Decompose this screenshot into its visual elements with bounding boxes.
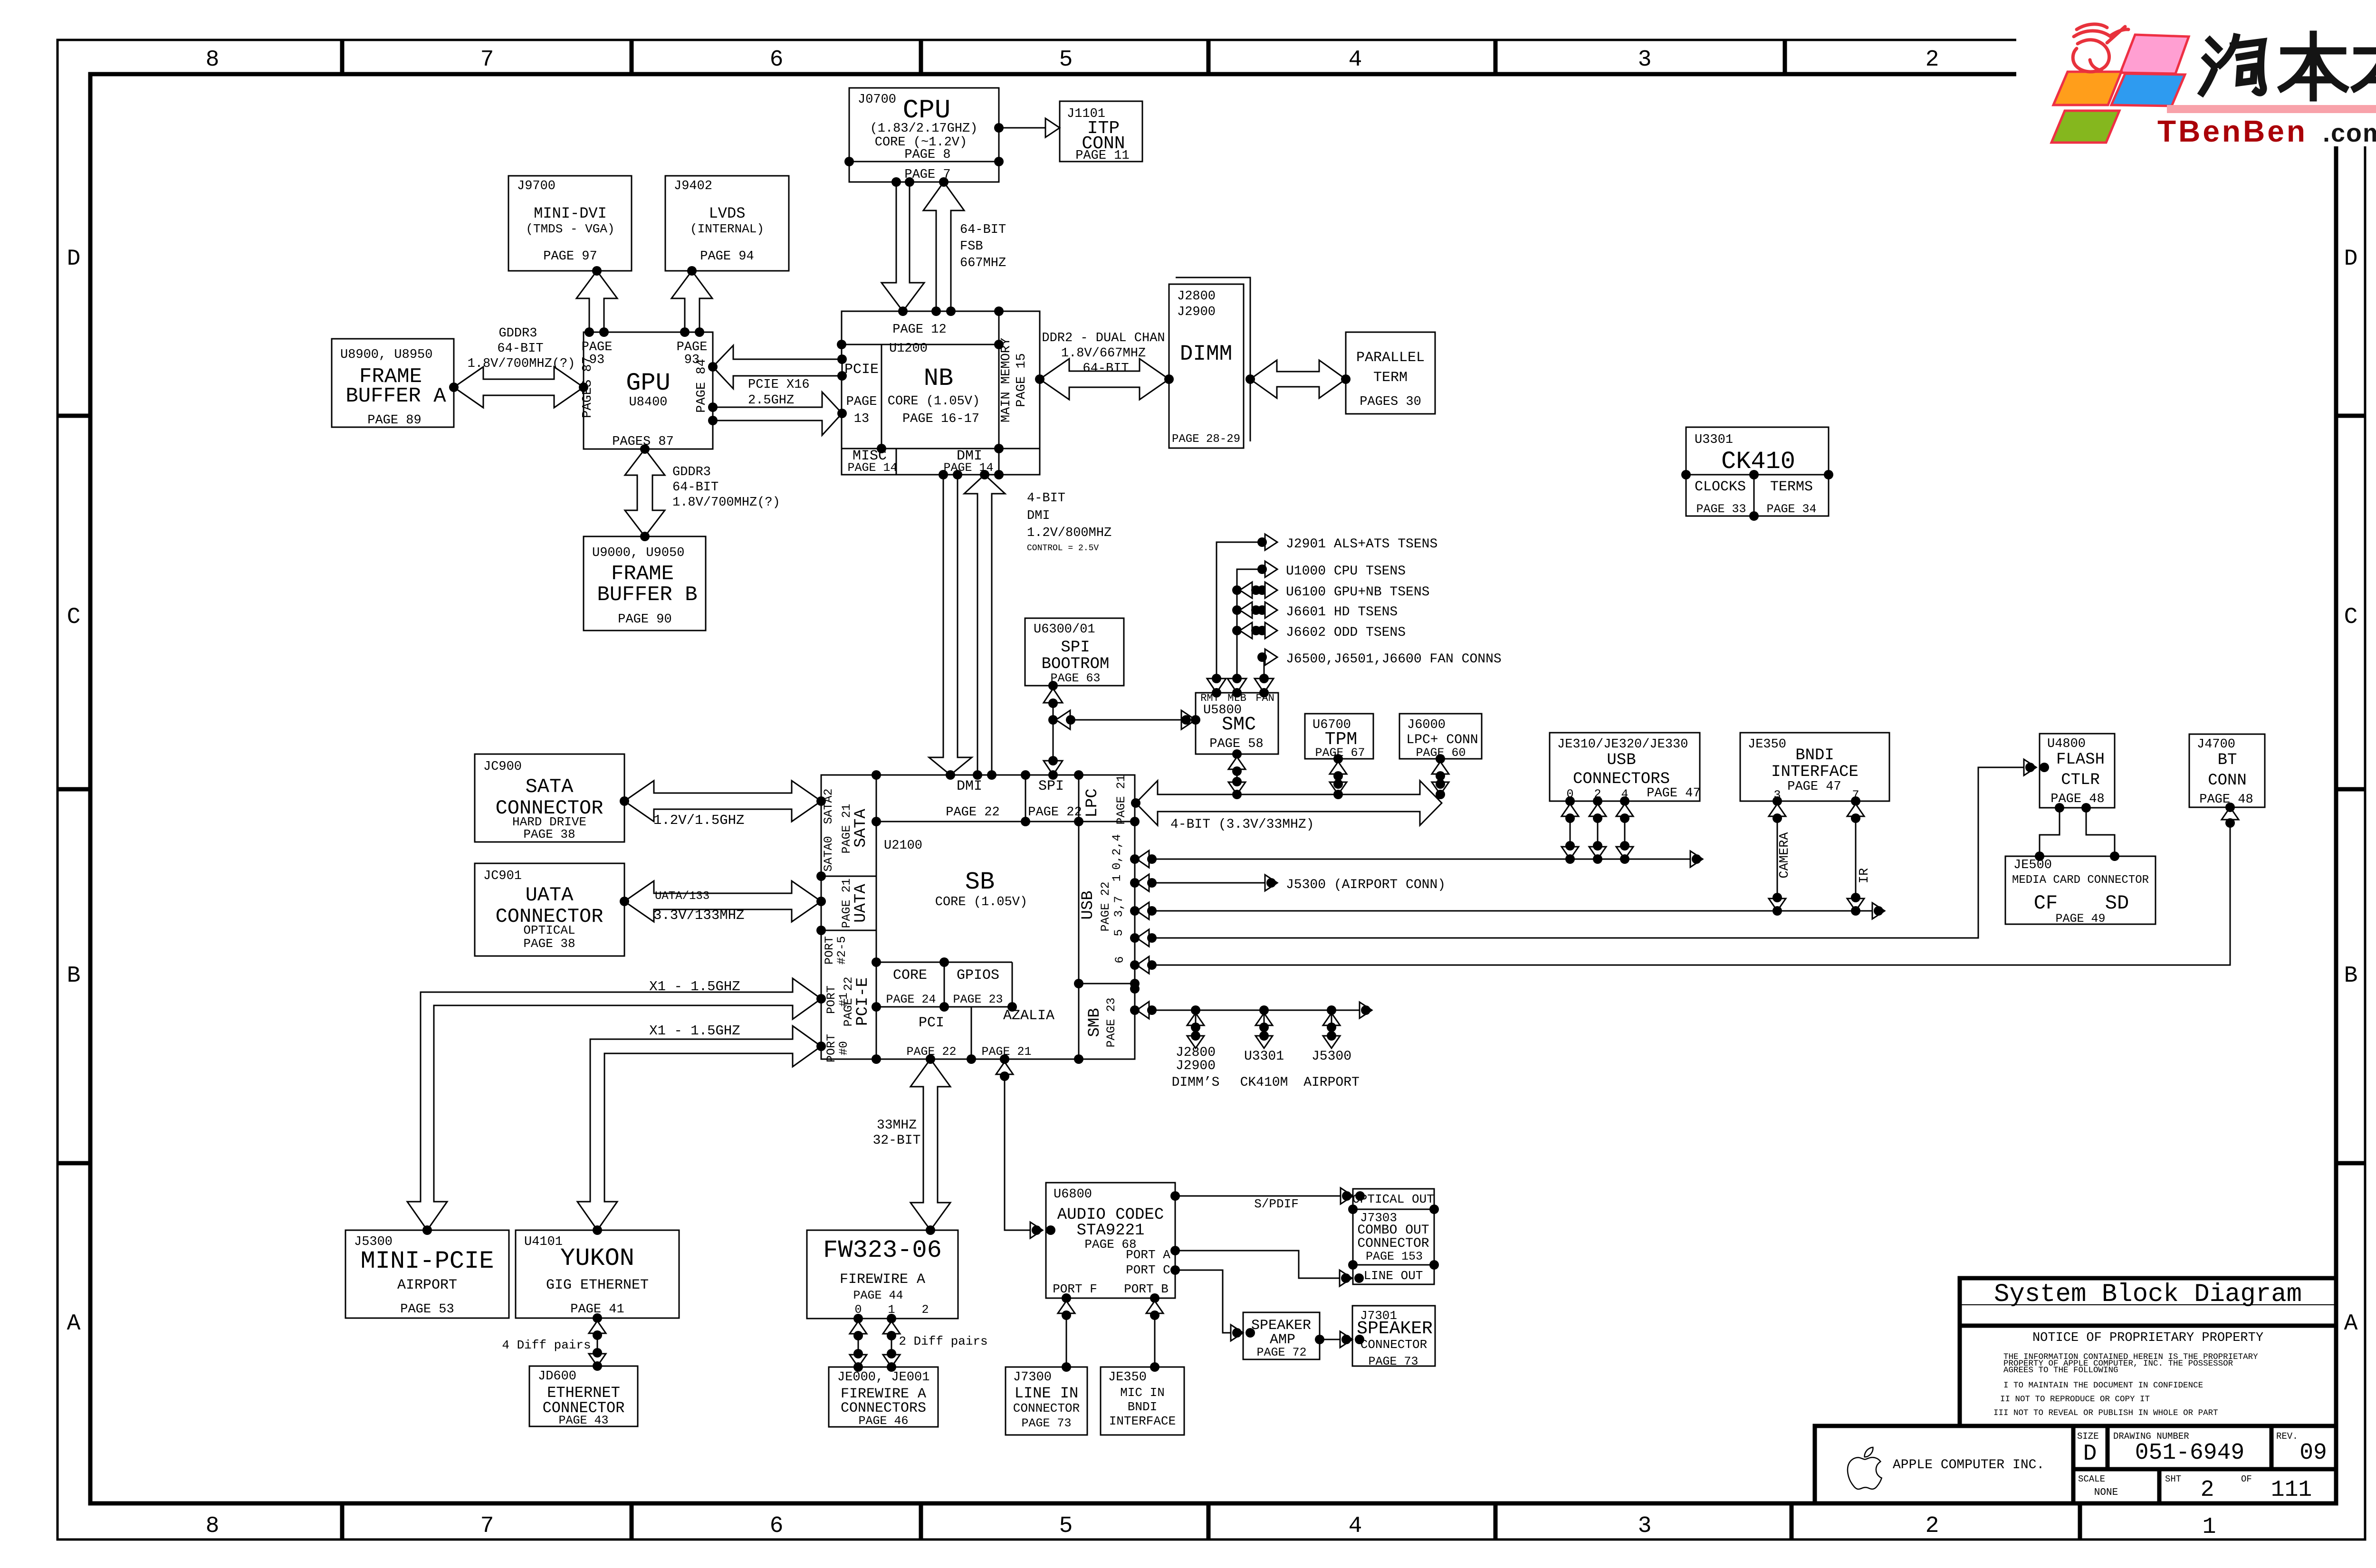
svg-text:33MHZ: 33MHZ bbox=[877, 1118, 917, 1133]
svg-text:GDDR3: GDDR3 bbox=[498, 326, 537, 341]
svg-text:UATA: UATA bbox=[852, 884, 870, 923]
SMB stub CK410M bbox=[1259, 1005, 1269, 1015]
svg-text:FIREWIRE A: FIREWIRE A bbox=[841, 1386, 926, 1402]
logo chinese char ben 1 bbox=[2282, 34, 2345, 98]
block CK410 U3301 bbox=[1686, 427, 1829, 516]
svg-text:U1200: U1200 bbox=[889, 342, 928, 356]
svg-text:I TO MAINTAIN THE DOCUMENT IN: I TO MAINTAIN THE DOCUMENT IN CONFIDENCE bbox=[2003, 1381, 2203, 1390]
block LPC+ CONN J6000 bbox=[1399, 714, 1482, 759]
svg-text:PAGE 38: PAGE 38 bbox=[523, 937, 575, 951]
svg-text:NOTICE OF PROPRIETARY PROPERTY: NOTICE OF PROPRIETARY PROPERTY bbox=[2032, 1331, 2263, 1345]
svg-text:FRAME: FRAME bbox=[611, 562, 674, 586]
svg-text:AIRPORT: AIRPORT bbox=[397, 1277, 457, 1293]
svg-text:SMC: SMC bbox=[1222, 714, 1256, 736]
svg-text:PAGE 11: PAGE 11 bbox=[1075, 149, 1129, 163]
svg-text:PAGE: PAGE bbox=[846, 395, 877, 409]
wire S/PDIF to COMBO OUT bbox=[1175, 1195, 1347, 1197]
title block band System Block Diagram bbox=[1960, 1278, 2336, 1326]
arrow GPU to NB (PCIE lower) bbox=[713, 392, 842, 435]
svg-text:SATA2: SATA2 bbox=[822, 788, 835, 824]
svg-text:BUFFER B: BUFFER B bbox=[597, 583, 697, 607]
svg-text:CLOCKS: CLOCKS bbox=[1695, 479, 1746, 495]
sensor tap J6602 ODD TSENS bbox=[1232, 626, 1242, 635]
svg-text:GDDR3: GDDR3 bbox=[672, 465, 711, 479]
svg-text:X1 - 1.5GHZ: X1 - 1.5GHZ bbox=[649, 1023, 740, 1039]
svg-text:SB: SB bbox=[965, 868, 995, 896]
svg-text:UATA/133: UATA/133 bbox=[655, 890, 709, 903]
svg-text:PORT A: PORT A bbox=[1126, 1248, 1170, 1262]
arrow NB to CPU (FSB up) bbox=[923, 182, 964, 311]
svg-text:U8900, U8950: U8900, U8950 bbox=[340, 348, 432, 362]
svg-text:PAGE 97: PAGE 97 bbox=[543, 249, 597, 264]
wire PORT B to MIC IN bbox=[1154, 1298, 1156, 1367]
svg-text:2.5GHZ: 2.5GHZ bbox=[748, 393, 794, 408]
wire PORT C to SPEAKER AMP bbox=[1175, 1270, 1237, 1333]
block TPM U6700 bbox=[1305, 714, 1373, 759]
svg-text:SIZE: SIZE bbox=[2077, 1431, 2099, 1442]
block SPEAKER AMP bbox=[1243, 1312, 1320, 1359]
svg-text:1: 1 bbox=[2203, 1514, 2216, 1540]
svg-text:PAGE 21: PAGE 21 bbox=[1114, 774, 1128, 824]
svg-text:PCI-E: PCI-E bbox=[854, 977, 872, 1026]
logo TBenBen parallelogram blue bbox=[2111, 74, 2185, 106]
svg-text:AGREES TO THE FOLLOWING: AGREES TO THE FOLLOWING bbox=[2003, 1366, 2118, 1375]
svg-text:PAGE 21: PAGE 21 bbox=[840, 878, 853, 928]
svg-text:PAGE 23: PAGE 23 bbox=[1104, 997, 1118, 1047]
stub USB connector pin x=3419 bbox=[1624, 801, 1626, 859]
svg-text:SHT: SHT bbox=[2165, 1474, 2181, 1484]
block BNDI INTERFACE JE350 bbox=[1740, 733, 1889, 801]
sensor tap U6100 GPU+NB TSENS bbox=[1232, 585, 1242, 595]
svg-text:LVDS: LVDS bbox=[709, 205, 746, 222]
svg-text:PAGE 84: PAGE 84 bbox=[695, 359, 709, 412]
arrow SB PORT#1 to MINI-PCIE (X1) bbox=[407, 978, 821, 1230]
block GPU U8400 bbox=[584, 332, 713, 449]
svg-text:051-6949: 051-6949 bbox=[2135, 1440, 2244, 1466]
block MEDIA CARD CONNECTOR JE500 bbox=[2005, 856, 2156, 924]
svg-text:J6000: J6000 bbox=[1407, 718, 1446, 732]
svg-text:2: 2 bbox=[1926, 1513, 1939, 1539]
svg-text:INTERFACE: INTERFACE bbox=[1771, 763, 1859, 781]
svg-text:PORT C: PORT C bbox=[1126, 1263, 1170, 1277]
logo chinese char tao bbox=[2202, 37, 2263, 93]
svg-text:MEDIA CARD CONNECTOR: MEDIA CARD CONNECTOR bbox=[2012, 874, 2149, 887]
svg-text:BT: BT bbox=[2218, 751, 2237, 769]
block MINI-DVI J9700 bbox=[508, 176, 632, 271]
svg-text:PAGE 22: PAGE 22 bbox=[946, 805, 999, 820]
svg-text:6: 6 bbox=[770, 47, 784, 73]
svg-text:PAGE 89: PAGE 89 bbox=[367, 413, 421, 428]
title block size/drawing/rev row bbox=[1815, 1424, 2336, 1428]
svg-text:64-BIT: 64-BIT bbox=[672, 480, 719, 495]
svg-text:4-BIT: 4-BIT bbox=[1027, 491, 1065, 506]
svg-text:4-BIT (3.3V/33MHZ): 4-BIT (3.3V/33MHZ) bbox=[1170, 817, 1314, 832]
wire USB 3,7 bus bbox=[1135, 910, 1878, 912]
svg-text:MINI-PCIE: MINI-PCIE bbox=[361, 1247, 494, 1275]
svg-text:PCI: PCI bbox=[919, 1015, 944, 1031]
svg-text:U3301: U3301 bbox=[1244, 1049, 1284, 1064]
svg-text:IR: IR bbox=[1858, 868, 1872, 883]
svg-text:2 Diff pairs: 2 Diff pairs bbox=[899, 1334, 987, 1348]
svg-text:AIRPORT: AIRPORT bbox=[1303, 1075, 1360, 1090]
svg-text:SPEAKER: SPEAKER bbox=[1251, 1318, 1311, 1334]
svg-text:J6602 ODD TSENS: J6602 ODD TSENS bbox=[1286, 625, 1406, 640]
svg-text:JD600: JD600 bbox=[538, 1369, 576, 1384]
svg-text:LINE OUT: LINE OUT bbox=[1364, 1269, 1423, 1283]
svg-text:PAGE 53: PAGE 53 bbox=[400, 1302, 454, 1317]
svg-text:6: 6 bbox=[770, 1513, 784, 1539]
wire CPU to ITP CONN bbox=[999, 127, 1060, 129]
svg-text:II NOT TO REPRODUCE OR COPY IT: II NOT TO REPRODUCE OR COPY IT bbox=[2000, 1395, 2150, 1404]
svg-text:J2900: J2900 bbox=[1176, 1059, 1216, 1073]
svg-text:SPI: SPI bbox=[1038, 778, 1064, 794]
svg-text:PAGE 47: PAGE 47 bbox=[1647, 786, 1700, 801]
stub USB connector pin x=3362 bbox=[1597, 801, 1599, 859]
svg-text:CONN: CONN bbox=[2208, 772, 2247, 790]
svg-text:PAGE 73: PAGE 73 bbox=[1021, 1416, 1071, 1430]
top zone ticks bbox=[340, 40, 345, 74]
block SPEAKER CONNECTOR J7301 bbox=[1352, 1306, 1435, 1366]
svg-text:USB: USB bbox=[1607, 751, 1636, 769]
svg-text:J9700: J9700 bbox=[517, 179, 556, 193]
svg-text:6: 6 bbox=[1113, 956, 1127, 963]
svg-text:SATA: SATA bbox=[852, 809, 870, 848]
svg-text:PORT: PORT bbox=[824, 985, 838, 1014]
svg-text:111: 111 bbox=[2271, 1477, 2312, 1503]
block SATA CONNECTOR JC900 bbox=[475, 754, 624, 842]
svg-text:PAGES 30: PAGES 30 bbox=[1360, 395, 1421, 409]
svg-text:4: 4 bbox=[1349, 1513, 1362, 1539]
arrow NB to DIMM (DDR2) bbox=[1040, 359, 1169, 400]
svg-text:1.8V/667MHZ: 1.8V/667MHZ bbox=[1061, 346, 1146, 361]
title block apple cell bbox=[1815, 1426, 2336, 1503]
svg-text:GIG ETHERNET: GIG ETHERNET bbox=[546, 1277, 649, 1293]
wire FLASH CTLR to MEDIA CARD CF bbox=[2040, 808, 2060, 856]
svg-text:GPU: GPU bbox=[626, 369, 671, 397]
svg-text:BOOTROM: BOOTROM bbox=[1042, 655, 1110, 673]
svg-text:COMBO OUT: COMBO OUT bbox=[1357, 1223, 1429, 1238]
SMB stub DIMM’S bbox=[1191, 1005, 1200, 1015]
svg-text:SCALE: SCALE bbox=[2078, 1474, 2105, 1484]
svg-text:CONNECTOR: CONNECTOR bbox=[1360, 1338, 1427, 1352]
block MINI-PCIE J5300 bbox=[345, 1230, 509, 1318]
svg-text:D: D bbox=[2083, 1441, 2097, 1467]
wire FW323 pin to connectors x=1806 bbox=[858, 1319, 859, 1367]
svg-text:4 Diff pairs: 4 Diff pairs bbox=[502, 1338, 591, 1352]
svg-text:U8400: U8400 bbox=[629, 395, 667, 410]
svg-text:PAGE 22: PAGE 22 bbox=[1099, 881, 1112, 931]
svg-text:PAGE 34: PAGE 34 bbox=[1766, 502, 1816, 516]
wire SMB bus bbox=[1135, 1010, 1366, 1011]
block NB U1200 bbox=[842, 311, 1040, 475]
wire USB 6 to BT CONN bbox=[1135, 810, 2230, 965]
arrow UATA CONNECTOR to SB bbox=[624, 881, 821, 922]
svg-text:APPLE COMPUTER INC.: APPLE COMPUTER INC. bbox=[1893, 1458, 2044, 1472]
svg-text:PAGE: PAGE bbox=[582, 340, 613, 354]
wire USB 0,2,4 bus bbox=[1135, 859, 1696, 860]
svg-text:SPEAKER: SPEAKER bbox=[1357, 1319, 1433, 1339]
block USB CONNECTORS JE310/JE320/JE330 bbox=[1550, 733, 1700, 801]
svg-text:U3301: U3301 bbox=[1695, 433, 1733, 447]
logo TBenBen parallelogram green bbox=[2051, 111, 2119, 143]
svg-text:0,2,4: 0,2,4 bbox=[1110, 834, 1124, 870]
svg-text:OPTICAL: OPTICAL bbox=[523, 923, 575, 937]
svg-text:CF: CF bbox=[2034, 892, 2058, 915]
arrow GPU to FRAME BUFFER B (GDDR3) bbox=[625, 449, 665, 536]
svg-text:(1.83/2.17GHZ): (1.83/2.17GHZ) bbox=[870, 122, 978, 136]
svg-text:SATA0: SATA0 bbox=[822, 836, 835, 871]
svg-text:JE350: JE350 bbox=[1108, 1370, 1147, 1385]
svg-text:CPU: CPU bbox=[903, 95, 951, 125]
svg-text:J7300: J7300 bbox=[1013, 1370, 1052, 1385]
svg-text:3: 3 bbox=[1638, 47, 1652, 73]
title block notice box bbox=[1960, 1326, 2336, 1426]
svg-text:LINE IN: LINE IN bbox=[1015, 1385, 1078, 1402]
arrow SB PCI to FW323-06 (33MHZ 32-BIT) bbox=[910, 1059, 950, 1230]
svg-text:System Block Diagram: System Block Diagram bbox=[1994, 1280, 2302, 1309]
svg-text:INTERFACE: INTERFACE bbox=[1109, 1414, 1176, 1428]
block LINE IN CONNECTOR J7300 bbox=[1006, 1367, 1087, 1435]
svg-text:TBenBen: TBenBen bbox=[2157, 114, 2308, 148]
svg-text:GPIOS: GPIOS bbox=[957, 967, 999, 984]
svg-text:UATA: UATA bbox=[526, 884, 574, 907]
stub TPM to LPC bus bbox=[1338, 759, 1339, 794]
svg-text:PAGE 72: PAGE 72 bbox=[1256, 1346, 1306, 1359]
svg-text:PAGE 43: PAGE 43 bbox=[558, 1414, 608, 1427]
wire BNDI pin3 CAMERA bbox=[1777, 801, 1778, 911]
svg-text:3: 3 bbox=[1638, 1513, 1652, 1539]
arrow GPU to LVDS bbox=[671, 271, 712, 332]
svg-text:J5300 (AIRPORT CONN): J5300 (AIRPORT CONN) bbox=[1286, 878, 1446, 892]
wire SB AZALIA to AUDIO CODEC bbox=[1005, 1059, 1036, 1230]
svg-text:PAGE 58: PAGE 58 bbox=[1209, 737, 1263, 751]
svg-text:1.8V/700MHZ(?): 1.8V/700MHZ(?) bbox=[672, 496, 780, 510]
wire FLASH CTLR to MEDIA CARD SD bbox=[2086, 808, 2115, 856]
svg-text:64-BIT: 64-BIT bbox=[497, 342, 543, 356]
left zone ticks bbox=[57, 414, 90, 418]
bus LPC 4-BIT bbox=[1136, 781, 1442, 825]
wire PORT A to LINE OUT bbox=[1175, 1251, 1346, 1278]
svg-text:U2100: U2100 bbox=[884, 839, 922, 853]
svg-text:PAGE 63: PAGE 63 bbox=[1050, 671, 1100, 685]
svg-text:J5300: J5300 bbox=[1312, 1049, 1351, 1064]
svg-text:PAGE 73: PAGE 73 bbox=[1368, 1355, 1418, 1368]
wire BNDI pin7 IR bbox=[1855, 801, 1857, 911]
svg-text:PORT: PORT bbox=[823, 936, 836, 965]
svg-text:YUKON: YUKON bbox=[560, 1244, 634, 1272]
svg-text:CORE (1.05V): CORE (1.05V) bbox=[888, 394, 980, 409]
block UATA CONNECTOR JC901 bbox=[475, 863, 624, 956]
logo TBenBen white backing bbox=[2016, 0, 2376, 146]
wire SMC MLB sensor chain bbox=[1237, 569, 1262, 679]
block BT CONN J4700 bbox=[2189, 734, 2265, 807]
wire SPI BOOTROM to SB SPI bbox=[1053, 686, 1054, 775]
svg-text:2: 2 bbox=[1926, 47, 1939, 73]
svg-text:JE310/JE320/JE330: JE310/JE320/JE330 bbox=[1557, 737, 1688, 752]
svg-text:8: 8 bbox=[206, 47, 220, 73]
svg-text:J2800: J2800 bbox=[1177, 289, 1216, 304]
svg-text:BNDI: BNDI bbox=[1128, 1400, 1157, 1414]
svg-text:MINI-DVI: MINI-DVI bbox=[534, 205, 607, 222]
svg-text:PAGE 33: PAGE 33 bbox=[1696, 502, 1746, 516]
svg-text:J6500,J6501,J6600 FAN CONNS: J6500,J6501,J6600 FAN CONNS bbox=[1286, 652, 1502, 667]
svg-text:C: C bbox=[67, 604, 81, 630]
svg-text:CORE: CORE bbox=[893, 967, 927, 984]
svg-text:PAGE 15: PAGE 15 bbox=[1015, 353, 1029, 407]
sensor tap J6601 HD TSENS bbox=[1232, 605, 1242, 615]
svg-text:2: 2 bbox=[2201, 1477, 2214, 1503]
svg-text:BNDI: BNDI bbox=[1795, 746, 1834, 765]
svg-text:32-BIT: 32-BIT bbox=[873, 1133, 921, 1148]
stub SMC to LPC bus bbox=[1236, 754, 1238, 794]
svg-text:667MHZ: 667MHZ bbox=[960, 256, 1006, 270]
arrow DIMM to PARALLEL TERM bbox=[1250, 360, 1346, 398]
svg-text:DIMM: DIMM bbox=[1180, 342, 1232, 366]
SMB stub AIRPORT bbox=[1327, 1005, 1336, 1015]
svg-text:NB: NB bbox=[924, 364, 953, 392]
block LVDS J9402 bbox=[665, 176, 789, 271]
svg-text:J4700: J4700 bbox=[2197, 737, 2235, 752]
svg-text:TERMS: TERMS bbox=[1770, 479, 1813, 495]
svg-text:PORT: PORT bbox=[824, 1034, 838, 1062]
svg-text:J2900: J2900 bbox=[1177, 305, 1216, 319]
svg-text:J9402: J9402 bbox=[674, 179, 712, 193]
svg-text:MAIN MEMORY: MAIN MEMORY bbox=[999, 338, 1014, 422]
svg-text:D: D bbox=[2344, 246, 2358, 272]
svg-text:JC900: JC900 bbox=[483, 760, 522, 774]
svg-text:PAGE 44: PAGE 44 bbox=[853, 1289, 903, 1302]
svg-text:PAGE 49: PAGE 49 bbox=[2055, 912, 2105, 926]
block AUDIO CODEC STA9221 U6800 bbox=[1046, 1183, 1175, 1298]
svg-text:CONTROL = 2.5V: CONTROL = 2.5V bbox=[1027, 544, 1099, 553]
block FRAME BUFFER A U8900 U8950 bbox=[332, 339, 454, 427]
svg-text:DMI: DMI bbox=[957, 778, 982, 794]
svg-text:J2800: J2800 bbox=[1176, 1045, 1216, 1060]
svg-text:CORE (1.05V): CORE (1.05V) bbox=[935, 895, 1027, 909]
svg-text:J6601 HD TSENS: J6601 HD TSENS bbox=[1286, 605, 1398, 620]
block SMC U5800 bbox=[1196, 693, 1278, 754]
svg-text:1: 1 bbox=[1110, 874, 1124, 881]
svg-text:LPC+ CONN: LPC+ CONN bbox=[1406, 733, 1478, 747]
svg-text:CTLR: CTLR bbox=[2061, 771, 2100, 789]
svg-text:PAGE 24: PAGE 24 bbox=[886, 993, 936, 1006]
svg-text:III NOT TO REVEAL OR PUBLISH I: III NOT TO REVEAL OR PUBLISH IN WHOLE OR… bbox=[1993, 1408, 2218, 1418]
logo chinese char ben 2 bbox=[2355, 34, 2376, 98]
svg-text:PORT F: PORT F bbox=[1053, 1282, 1097, 1296]
wire USB 5 to FLASH CTLR bbox=[1135, 767, 2030, 938]
svg-text:7: 7 bbox=[480, 1513, 494, 1539]
svg-text:PAGE 38: PAGE 38 bbox=[523, 827, 575, 841]
svg-text:64-BIT: 64-BIT bbox=[1083, 362, 1129, 376]
wire PORT F to LINE IN bbox=[1066, 1298, 1067, 1367]
block ETHERNET CONNECTOR JD600 bbox=[529, 1366, 638, 1426]
svg-text:PAGE 94: PAGE 94 bbox=[700, 249, 754, 264]
svg-text:7: 7 bbox=[480, 47, 494, 73]
svg-text:DIMM’S: DIMM’S bbox=[1172, 1075, 1220, 1090]
svg-text:BUFFER A: BUFFER A bbox=[345, 384, 446, 408]
bottom zone ticks bbox=[340, 1503, 345, 1539]
svg-text:JE000, JE001: JE000, JE001 bbox=[837, 1370, 929, 1385]
svg-text:1.2V/800MHZ: 1.2V/800MHZ bbox=[1027, 526, 1111, 540]
svg-text:JC901: JC901 bbox=[483, 869, 522, 883]
block SB U2100 bbox=[821, 775, 1135, 1059]
arrow FRAME BUFFER A to GPU (GDDR3) bbox=[454, 367, 584, 408]
block MIC IN BNDI INTERFACE JE350 bbox=[1101, 1367, 1184, 1435]
svg-text:PAGE 12: PAGE 12 bbox=[892, 323, 946, 337]
svg-text:PAGE 21: PAGE 21 bbox=[840, 803, 853, 853]
svg-text:2: 2 bbox=[921, 1303, 929, 1317]
stub USB connector pin x=3304 bbox=[1570, 801, 1571, 859]
svg-text:5: 5 bbox=[1059, 1513, 1073, 1539]
wire SPI to SMC bbox=[1053, 719, 1196, 721]
svg-text:CK410M: CK410M bbox=[1240, 1075, 1288, 1090]
wire FW323 pin to connectors x=1876 bbox=[891, 1319, 892, 1367]
block FIREWIRE A CONNECTORS JE000 JE001 bbox=[829, 1367, 938, 1427]
block DIMM J2800 J2900 (shadow) bbox=[1176, 277, 1250, 441]
svg-text:A: A bbox=[2344, 1311, 2358, 1337]
wire SMC FAN to fan connectors bbox=[1262, 657, 1264, 679]
svg-text:PAGE 90: PAGE 90 bbox=[618, 612, 671, 627]
svg-text:PARALLEL: PARALLEL bbox=[1356, 350, 1425, 366]
svg-text:5: 5 bbox=[1112, 929, 1126, 936]
svg-text:B: B bbox=[67, 963, 81, 989]
block PARALLEL TERM bbox=[1346, 332, 1435, 414]
svg-text:U6100 GPU+NB TSENS: U6100 GPU+NB TSENS bbox=[1286, 585, 1429, 600]
svg-text:(INTERNAL): (INTERNAL) bbox=[690, 222, 764, 236]
stub LPC+ CONN to LPC bus bbox=[1440, 759, 1441, 794]
svg-text:J0700: J0700 bbox=[858, 93, 896, 107]
svg-text:PAGE 28-29: PAGE 28-29 bbox=[1172, 433, 1240, 446]
arrow SB to NB (DMI up) bbox=[964, 475, 1005, 775]
block SPI BOOTROM U6300/01 bbox=[1025, 618, 1124, 686]
svg-text:D: D bbox=[67, 246, 81, 272]
svg-text:PAGE 22: PAGE 22 bbox=[1028, 805, 1082, 820]
svg-text:CONNECTORS: CONNECTORS bbox=[1573, 770, 1670, 788]
svg-text:TERM: TERM bbox=[1373, 370, 1408, 386]
svg-text:3,7: 3,7 bbox=[1112, 896, 1126, 917]
svg-text:NONE: NONE bbox=[2094, 1487, 2118, 1498]
svg-text:U1000 CPU TSENS: U1000 CPU TSENS bbox=[1286, 564, 1406, 579]
svg-text:PAGE 48: PAGE 48 bbox=[2199, 793, 2253, 807]
block ITP CONN J1101 bbox=[1060, 101, 1142, 162]
svg-text:#2-5: #2-5 bbox=[835, 936, 849, 965]
svg-text:PCIE X16: PCIE X16 bbox=[748, 378, 810, 392]
svg-text:CONNECTOR: CONNECTOR bbox=[1357, 1236, 1429, 1251]
wire YUKON to ETHERNET CONNECTOR bbox=[597, 1318, 598, 1366]
arrow GPU to MINI-DVI bbox=[576, 271, 617, 332]
svg-text:LPC: LPC bbox=[1083, 788, 1102, 817]
svg-text:FSB: FSB bbox=[960, 239, 983, 254]
SMC pin arrowheads bbox=[1207, 679, 1226, 693]
svg-text:DDR2 - DUAL CHAN: DDR2 - DUAL CHAN bbox=[1042, 331, 1165, 345]
svg-text:CAMERA: CAMERA bbox=[1778, 832, 1792, 879]
block FW323-06 bbox=[807, 1230, 958, 1319]
arrow SATA CONNECTOR to SB bbox=[624, 781, 821, 822]
svg-text:PAGE 14: PAGE 14 bbox=[847, 461, 897, 475]
svg-text:1.2V/1.5GHZ: 1.2V/1.5GHZ bbox=[653, 813, 744, 828]
svg-text:PAGE 47: PAGE 47 bbox=[1787, 780, 1841, 794]
svg-text:PAGE 8: PAGE 8 bbox=[904, 148, 950, 162]
svg-text:U4101: U4101 bbox=[524, 1235, 563, 1249]
logo TBenBen red swirl figure bbox=[2073, 24, 2128, 72]
svg-text:#0: #0 bbox=[837, 1041, 851, 1055]
svg-text:S/PDIF: S/PDIF bbox=[1254, 1197, 1299, 1211]
block FLASH CTLR U4800 bbox=[2040, 734, 2115, 808]
arrow NB to GPU (PCIE upper) bbox=[713, 345, 842, 389]
svg-text:3.3V/133MHZ: 3.3V/133MHZ bbox=[653, 908, 744, 923]
svg-text:U6800: U6800 bbox=[1054, 1187, 1092, 1202]
svg-text:SMB: SMB bbox=[1086, 1008, 1104, 1037]
